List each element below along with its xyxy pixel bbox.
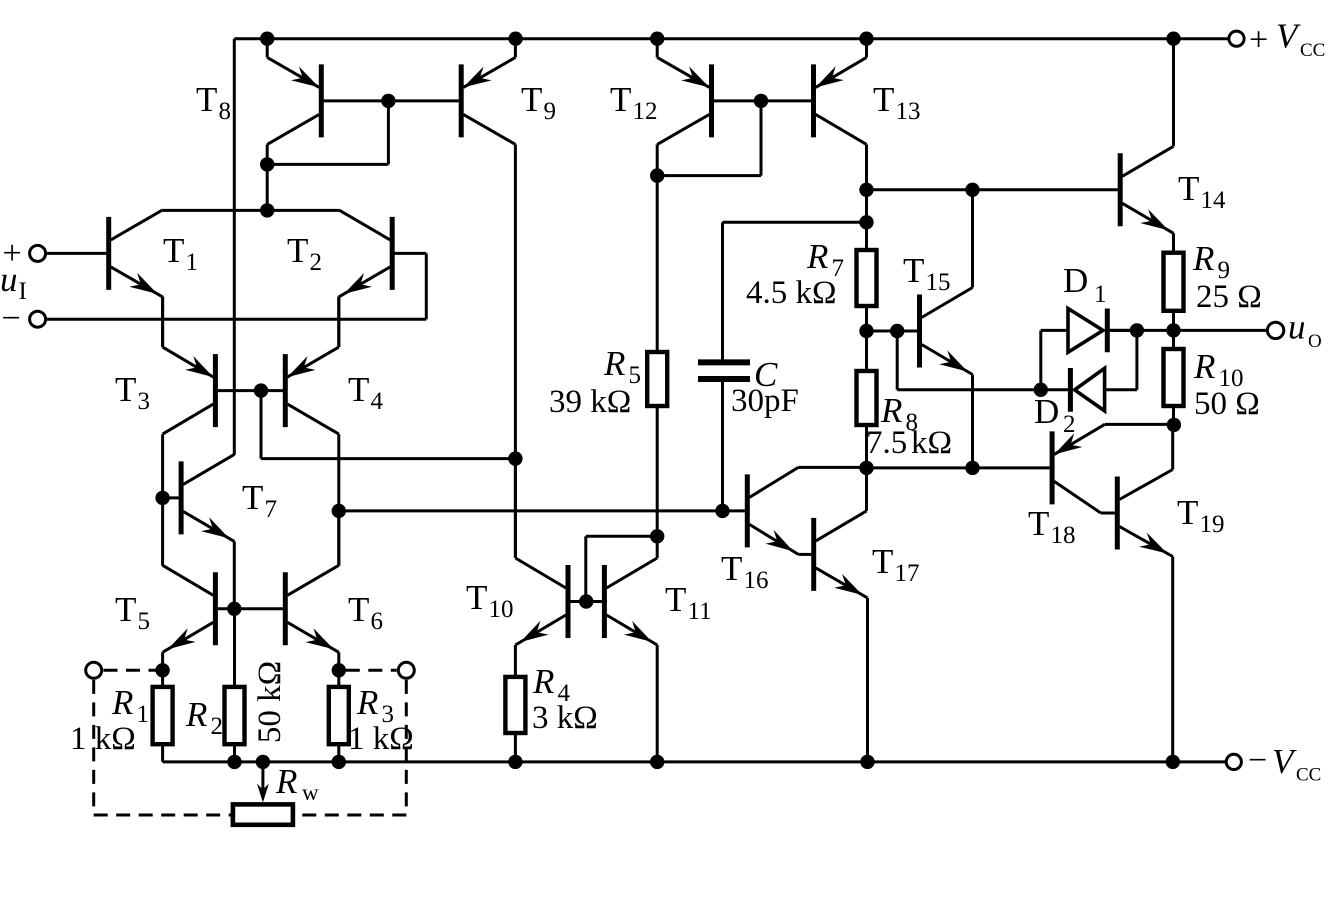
offset-null terminal left: [86, 662, 102, 678]
junction C bottom on T16 base wire: [715, 504, 729, 518]
label T13: [873, 80, 921, 125]
label R10 value: [1194, 386, 1260, 422]
junction R3 bottom on -Vcc: [332, 755, 346, 769]
label R4 value: [532, 700, 598, 736]
svg-text:25 Ω: 25 Ω: [1196, 279, 1262, 315]
resistor R7: [857, 250, 877, 331]
label R3: [356, 683, 394, 728]
wire T12 collector to base tie: [657, 101, 761, 176]
transistor T14: [1120, 39, 1173, 253]
label T14: [1178, 169, 1226, 214]
svg-text:4.5 kΩ: 4.5 kΩ: [746, 275, 837, 311]
label R10: [1193, 347, 1244, 392]
svg-text:1: 1: [186, 249, 199, 276]
junction R10 bottom / T18 emitter: [1167, 418, 1181, 432]
svg-text:T: T: [115, 590, 136, 629]
svg-text:50 Ω: 50 Ω: [1194, 386, 1260, 422]
svg-text:V: V: [1272, 742, 1297, 781]
resistor R10: [1164, 330, 1184, 425]
svg-text:T: T: [665, 580, 686, 619]
diode D2: [1070, 368, 1104, 412]
svg-text:u: u: [1288, 307, 1306, 346]
label C value: [731, 383, 799, 419]
resistor R1: [153, 670, 173, 762]
svg-text:V: V: [1276, 17, 1301, 56]
label R5: [603, 344, 641, 389]
svg-text:13: 13: [896, 98, 921, 125]
svg-text:1: 1: [137, 701, 150, 728]
junction T13 emitter on +Vcc: [859, 32, 873, 46]
svg-text:kΩ: kΩ: [911, 425, 952, 461]
junction R8 bottom / T16 collector / T17 collector: [859, 461, 873, 475]
label C: [754, 355, 778, 394]
label R8 value: [866, 425, 952, 461]
svg-text:O: O: [1308, 331, 1322, 352]
svg-text:14: 14: [1201, 187, 1227, 214]
dashed wire bottom right to Rw: [294, 814, 407, 817]
svg-text:19: 19: [1200, 511, 1225, 538]
junction R9/R10 output node: [1166, 323, 1180, 337]
transistor T7: [163, 454, 235, 608]
label T2: [287, 231, 322, 276]
junction T8 emitter on +Vcc: [260, 32, 274, 46]
svg-text:5: 5: [138, 608, 151, 635]
label T10: [466, 578, 514, 623]
label R4: [532, 662, 571, 707]
junction T12 emitter on +Vcc: [650, 32, 664, 46]
label R2: [185, 695, 223, 740]
transistor T11: [586, 536, 657, 762]
terminal uo: [1267, 322, 1283, 338]
junction T11 emitter on -Vcc: [650, 755, 664, 769]
svg-text:7: 7: [265, 496, 278, 523]
junction T12 base tie: [754, 94, 768, 108]
junction R4 bottom on -Vcc: [508, 755, 522, 769]
resistor R5: [647, 176, 667, 537]
label +: [3, 235, 22, 272]
svg-text:7.5: 7.5: [866, 425, 907, 461]
dashed wire right terminal down: [405, 680, 408, 815]
svg-text:2: 2: [310, 249, 323, 276]
terminal -Vcc: [1226, 754, 1241, 769]
label T9: [521, 80, 556, 125]
label D1: [1063, 261, 1107, 308]
junction T3/T4 base node: [254, 383, 268, 397]
input + terminal: [30, 245, 107, 261]
junction T13 collector / T14 base: [859, 183, 873, 197]
svg-text:T: T: [163, 231, 184, 270]
offset-null terminal right: [398, 662, 414, 678]
input - terminal: [30, 311, 427, 327]
diode D1: [1068, 309, 1107, 353]
svg-text:T: T: [196, 80, 217, 119]
svg-text:1 kΩ: 1 kΩ: [348, 721, 414, 757]
svg-text:R: R: [356, 683, 378, 722]
terminal +Vcc: [1229, 31, 1244, 46]
label R5 value: [549, 384, 631, 420]
label R8: [880, 391, 918, 436]
label +Vcc: [1249, 17, 1325, 61]
junction R1 top: [155, 663, 169, 677]
label T8: [196, 80, 231, 125]
wire T3/T4 bases: [218, 389, 283, 392]
junction T14 collector on +Vcc: [1166, 32, 1180, 46]
svg-text:T: T: [242, 478, 263, 517]
svg-text:1: 1: [1094, 281, 1107, 308]
transistor T9: [461, 39, 515, 558]
wire base node to T9 collector: [261, 391, 515, 459]
svg-text:11: 11: [688, 598, 712, 625]
svg-text:T: T: [903, 251, 924, 290]
svg-text:39 kΩ: 39 kΩ: [549, 384, 631, 420]
transistor T4: [285, 296, 339, 565]
wire T11 collector to bases: [586, 536, 657, 597]
transistor T16: [747, 467, 866, 554]
label R7 value: [746, 275, 837, 311]
svg-text:T: T: [348, 590, 369, 629]
wire T15 base to diodes: [897, 331, 1040, 390]
wire T8 collector to T1/T2 collectors: [266, 164, 269, 210]
wire +Vcc to T7 collector: [233, 39, 236, 455]
transistor T19: [1117, 425, 1172, 762]
potentiometer Rw body: [233, 804, 293, 824]
label T3: [115, 370, 150, 415]
svg-text:T: T: [521, 80, 542, 119]
resistor R3: [329, 670, 349, 762]
label R7: [806, 237, 844, 282]
svg-text:−: −: [1248, 742, 1267, 779]
wire T1 emitter to T3 emitter: [161, 297, 164, 347]
junction T7 emitter / T5 T6 bases: [227, 602, 241, 616]
label T17: [872, 542, 920, 587]
svg-text:R: R: [185, 695, 207, 734]
svg-text:4: 4: [371, 388, 384, 415]
svg-text:16: 16: [744, 567, 769, 594]
label T19: [1177, 493, 1225, 538]
svg-text:T: T: [466, 578, 487, 617]
junction R2 bottom on -Vcc: [227, 755, 241, 769]
label -Vcc: [1248, 742, 1321, 785]
svg-text:R: R: [603, 344, 625, 383]
wire D1 anode to D2 wire: [1039, 330, 1042, 389]
label T5: [115, 590, 150, 635]
junction T8 base tie: [381, 94, 395, 108]
label T15: [903, 251, 951, 296]
svg-text:R: R: [1193, 347, 1215, 386]
junction T11 collector / R5 bottom: [650, 529, 664, 543]
svg-text:R: R: [806, 237, 828, 276]
wire T12/T13 bases: [714, 99, 811, 102]
wire T18 base: [867, 466, 1050, 469]
transistor T15: [867, 190, 973, 468]
wire D1 cathode: [1107, 329, 1137, 332]
label T1: [163, 231, 198, 276]
junction R3 top: [332, 663, 346, 677]
junction T15 base tap: [890, 324, 904, 338]
svg-text:2: 2: [211, 713, 224, 740]
svg-text:u: u: [0, 260, 18, 299]
wire T14 base: [867, 188, 1118, 191]
svg-text:1 kΩ: 1 kΩ: [70, 721, 136, 757]
dashed wire left terminal down: [92, 680, 95, 815]
label R1: [111, 683, 149, 728]
junction D2 top: [1130, 323, 1144, 337]
svg-text:R: R: [532, 662, 554, 701]
potentiometer Rw wiper arrow: [257, 762, 269, 803]
label R9: [1192, 239, 1230, 284]
label R3 value: [348, 721, 414, 757]
svg-text:+: +: [1249, 21, 1268, 58]
label D2: [1034, 392, 1076, 438]
resistor R2: [225, 609, 245, 762]
svg-text:T: T: [115, 370, 136, 409]
transistor T10: [515, 459, 586, 677]
wire T5/T6 bases: [218, 607, 283, 610]
junction T17 emitter on -Vcc: [860, 755, 874, 769]
wire T2 emitter to T4 emitter: [337, 297, 340, 347]
wire C top: [723, 222, 867, 360]
transistor T2: [339, 210, 427, 319]
resistor R8: [857, 331, 877, 468]
junction T6 collector to wire: [332, 504, 346, 518]
label T11: [665, 580, 712, 625]
junction T12 collector: [650, 168, 664, 182]
label uI: [0, 260, 27, 305]
svg-text:T: T: [873, 80, 894, 119]
wire D2 to output node: [1105, 330, 1137, 389]
svg-text:17: 17: [895, 560, 920, 587]
wire T1/T2 collectors: [163, 209, 339, 212]
svg-text:3: 3: [138, 388, 151, 415]
transistor T3: [163, 296, 216, 565]
svg-text:D: D: [1034, 392, 1059, 431]
svg-text:50 kΩ: 50 kΩ: [252, 661, 288, 743]
label R9 value: [1196, 279, 1262, 315]
junction D2 anode node: [1034, 383, 1048, 397]
wire D1 anode: [1041, 329, 1068, 332]
svg-text:−: −: [2, 300, 21, 337]
-Vcc rail: [163, 760, 1227, 763]
junction T9 collector / T3 T4 bases: [508, 451, 522, 465]
label uo: [1288, 307, 1322, 352]
label -: [2, 300, 21, 337]
capacitor C: [698, 362, 750, 511]
svg-text:D: D: [1063, 261, 1088, 300]
transistor T18: [1052, 424, 1174, 513]
junction T19 emitter on -Vcc: [1166, 755, 1180, 769]
dashed wire R3 to right terminal: [346, 669, 397, 672]
label Rw: [275, 762, 319, 805]
wire T8 collector to base (mirror tie): [267, 101, 388, 164]
svg-text:3 kΩ: 3 kΩ: [532, 700, 598, 736]
svg-text:T: T: [721, 549, 742, 588]
svg-text:CC: CC: [1300, 40, 1325, 61]
svg-text:R: R: [275, 762, 297, 801]
svg-text:T: T: [872, 542, 893, 581]
junction R7 bottom / T15 base: [859, 324, 873, 338]
junction T15 collector on T14 base wire: [965, 183, 979, 197]
junction Rw wiper on -Vcc: [256, 755, 270, 769]
svg-text:w: w: [302, 780, 319, 805]
svg-text:T: T: [287, 231, 308, 270]
transistor T12: [657, 39, 711, 176]
wire T8/T9 bases: [324, 99, 459, 102]
svg-text:6: 6: [371, 608, 384, 635]
svg-text:8: 8: [219, 98, 232, 125]
junction T9 emitter on +Vcc: [508, 32, 522, 46]
label T12: [610, 80, 658, 125]
svg-text:9: 9: [544, 98, 557, 125]
junction T13 collector / C top: [859, 215, 873, 229]
svg-text:30pF: 30pF: [731, 383, 799, 419]
junction T15 emitter on T18 base wire: [965, 461, 979, 475]
label T6: [348, 590, 383, 635]
junction T7 base on T3 collector: [155, 491, 169, 505]
svg-text:10: 10: [489, 596, 514, 623]
junction T8 collector: [260, 157, 274, 171]
dashed wire bottom left to Rw: [94, 814, 233, 817]
transistor T13: [814, 39, 867, 250]
resistor R9: [1164, 253, 1184, 331]
wire T6 collector to T16 base: [339, 509, 745, 512]
svg-text:T: T: [1178, 169, 1199, 208]
transistor T1: [109, 210, 163, 297]
transistor T6: [285, 511, 339, 670]
label R1 value: [70, 721, 136, 757]
junction T1/T2 collectors to T8: [260, 203, 274, 217]
label T16: [721, 549, 769, 594]
svg-text:R: R: [111, 683, 133, 722]
+Vcc rail: [234, 37, 1229, 40]
svg-text:18: 18: [1051, 522, 1076, 549]
transistor T17: [814, 468, 868, 762]
wire D2 right: [1041, 388, 1071, 391]
label R2 value 50k (rotated): [252, 661, 288, 743]
transistor T8: [267, 39, 321, 165]
svg-text:T: T: [1177, 493, 1198, 532]
output wire: [1110, 329, 1268, 332]
svg-text:T: T: [1028, 504, 1049, 543]
label T4: [348, 370, 384, 415]
junction T10/T11 bases: [579, 594, 593, 608]
label T18: [1028, 504, 1076, 549]
svg-text:12: 12: [633, 98, 658, 125]
svg-text:R: R: [1192, 239, 1214, 278]
dashed wire left terminal to R1: [104, 669, 156, 672]
svg-text:T: T: [348, 370, 369, 409]
svg-text:15: 15: [926, 269, 951, 296]
resistor R4: [505, 677, 525, 762]
svg-text:T: T: [610, 80, 631, 119]
label T7: [242, 478, 277, 523]
transistor T5: [163, 565, 216, 670]
svg-text:CC: CC: [1296, 764, 1321, 785]
